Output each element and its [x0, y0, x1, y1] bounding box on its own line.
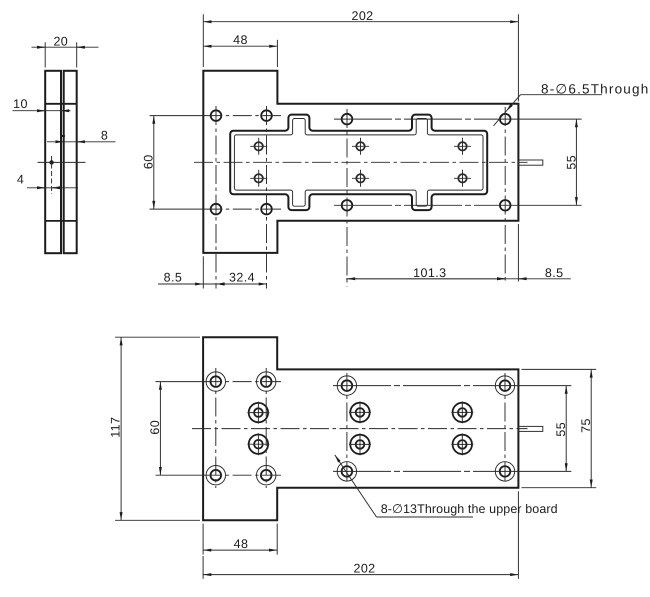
- hole T5: [211, 204, 222, 215]
- svg-text:8: 8: [101, 128, 108, 142]
- vertical centerline col3 bottom: [346, 373, 348, 484]
- med hole M3: [349, 401, 371, 423]
- svg-text:20: 20: [53, 34, 68, 48]
- slot inner contour: [234, 119, 483, 207]
- corner hole B1: [206, 372, 225, 391]
- svg-text:8.5: 8.5: [164, 270, 183, 284]
- hole T7: [342, 200, 353, 211]
- dim 48 top line: [203, 45, 277, 47]
- dim 55 line: [575, 119, 577, 205]
- row centerline top row left: [203, 115, 281, 117]
- step line lower (side view): [45, 220, 76, 222]
- svg-text:8-∅6.5Through: 8-∅6.5Through: [541, 81, 649, 96]
- small hole S3: [352, 138, 369, 155]
- hole T6: [261, 204, 272, 215]
- svg-text:32.4: 32.4: [229, 270, 255, 284]
- leader 8-13 line: [335, 455, 377, 517]
- svg-text:8-∅13Through the upper board: 8-∅13Through the upper board: [381, 502, 558, 516]
- vertical centerline col1: [215, 106, 217, 289]
- dim 60 extension lines: [150, 116, 205, 210]
- slot outer contour: [230, 115, 487, 211]
- gap bar mark: [60, 135, 65, 137]
- horizontal centerline bottom view: [192, 428, 528, 430]
- med hole M4: [349, 433, 371, 455]
- dim 117 line: [120, 337, 122, 520]
- step line upper (side view): [45, 103, 76, 105]
- dim 55 bottom extension lines: [512, 386, 572, 472]
- dim 48 top extension line: [276, 40, 278, 67]
- dim 8.5 left arrows: [196, 283, 204, 285]
- pin (bottom view): [518, 426, 542, 431]
- corner hole B3: [337, 376, 356, 395]
- svg-text:55: 55: [554, 422, 568, 437]
- svg-text:8.5: 8.5: [545, 266, 564, 280]
- dim 117 extension lines: [115, 337, 200, 520]
- row centerline bottom row left: [203, 208, 281, 210]
- dot horizontal centerline: [38, 161, 86, 163]
- svg-text:60: 60: [142, 154, 156, 169]
- leader 8-13 underline: [377, 516, 474, 518]
- small hole S5: [454, 138, 471, 155]
- med hole M2: [247, 433, 269, 455]
- dim 101.3 arrows: [347, 278, 505, 280]
- dim 4 arrows: [38, 187, 46, 189]
- dim 55 bottom line: [565, 386, 567, 472]
- vertical centerline col4 bottom: [504, 373, 506, 484]
- dim 60 line: [153, 116, 155, 210]
- row centerline top left bottomview: [203, 381, 281, 383]
- svg-text:75: 75: [579, 418, 593, 433]
- hole T4: [500, 114, 511, 125]
- svg-text:48: 48: [233, 33, 248, 47]
- leader 8-6.5 underline: [521, 94, 603, 96]
- plate outline (bottom view): [203, 337, 518, 520]
- dim 202 bottom extensions: [203, 491, 518, 579]
- svg-text:117: 117: [109, 417, 123, 438]
- leader 8-6.5 diagonal: [494, 95, 521, 126]
- dim 202 top extension lines: [203, 14, 518, 101]
- hole T1: [211, 110, 222, 121]
- dim 75 line: [590, 369, 592, 487]
- dim 32.4 arrows: [216, 283, 267, 285]
- row centerline top right bottomview: [333, 385, 512, 387]
- hole T8: [500, 200, 511, 211]
- svg-text:10: 10: [13, 97, 28, 111]
- row centerline bottom left bottomview: [203, 474, 281, 476]
- dim 202 top line: [203, 21, 518, 23]
- svg-text:202: 202: [353, 562, 375, 576]
- svg-text:55: 55: [564, 155, 578, 170]
- dim 8.5 right arrows: [498, 278, 506, 280]
- row centerline top row right: [334, 118, 512, 120]
- dim 60 bottom line: [159, 382, 161, 476]
- svg-text:48: 48: [234, 537, 249, 551]
- small hole S2: [250, 170, 267, 187]
- dim 48 bottom line: [203, 549, 277, 551]
- pin (top view): [518, 160, 542, 165]
- vertical centerline col1 bottom: [215, 368, 217, 488]
- bottom dim row extensions: [203, 224, 518, 289]
- vertical centerline col4: [504, 107, 506, 284]
- svg-text:60: 60: [148, 420, 162, 435]
- svg-text:4: 4: [17, 172, 24, 186]
- dim 4 line: [27, 187, 78, 189]
- dot vertical centerline: [51, 156, 53, 194]
- corner hole B8: [495, 462, 514, 481]
- row centerline bottom right bottomview: [333, 470, 512, 472]
- dim 20 arrows: [38, 46, 46, 48]
- bottom dim line segment B: [346, 278, 571, 280]
- plate outline (top view): [203, 71, 518, 253]
- med hole M5: [451, 401, 473, 423]
- dim 10 line: [13, 110, 71, 112]
- dim 48 bottom extensions: [203, 524, 277, 555]
- svg-text:202: 202: [351, 9, 373, 23]
- hole T2: [261, 110, 272, 121]
- corner hole B7: [337, 462, 356, 481]
- med hole M1: [247, 402, 269, 424]
- dim 10 arrows: [38, 110, 46, 112]
- corner hole B4: [495, 376, 514, 395]
- corner hole B2: [257, 372, 276, 391]
- plate 2 outline (side view): [64, 71, 77, 253]
- plate 1 outline (side view): [45, 71, 61, 253]
- dim 60 bottom extension lines: [156, 382, 205, 476]
- row centerline bottom row right: [334, 204, 512, 206]
- vertical centerline col3: [346, 109, 348, 287]
- pin dot (side view): [49, 160, 53, 164]
- dim 20 extension lines: [45, 42, 76, 67]
- dim 75 extension lines: [522, 369, 597, 487]
- vertical centerline col2: [266, 106, 268, 289]
- small hole S4: [352, 170, 369, 187]
- corner hole B6: [257, 466, 276, 485]
- hole T3: [342, 114, 353, 125]
- dim 8 line: [47, 141, 116, 143]
- svg-text:101.3: 101.3: [413, 266, 446, 280]
- dim 20 line: [32, 46, 99, 48]
- vertical centerline col2 bottom: [265, 368, 267, 488]
- dim 202 bottom line: [203, 574, 518, 576]
- med hole M6: [451, 433, 473, 455]
- bottom dim line segment A: [158, 283, 267, 285]
- dim 8 arrows: [56, 141, 64, 143]
- corner hole B5: [206, 466, 225, 485]
- small hole S1: [250, 138, 267, 155]
- horizontal centerline top view: [194, 161, 528, 163]
- dim 55 extension lines: [512, 119, 582, 205]
- small hole S6: [454, 170, 471, 187]
